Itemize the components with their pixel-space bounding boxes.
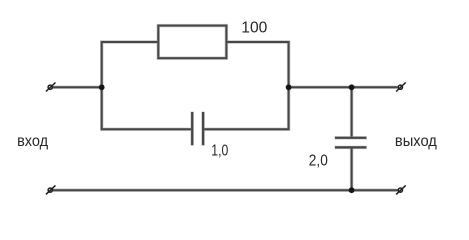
- svg-text:выход: выход: [395, 133, 438, 150]
- svg-text:2,0: 2,0: [309, 152, 328, 169]
- svg-text:вход: вход: [17, 133, 49, 150]
- svg-text:100: 100: [241, 20, 267, 37]
- svg-text:1,0: 1,0: [211, 143, 228, 160]
